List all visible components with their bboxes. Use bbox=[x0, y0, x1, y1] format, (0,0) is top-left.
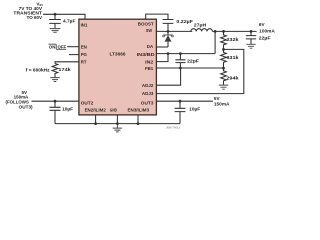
wire IN3/BD line bbox=[156, 53, 215, 55]
svg-text:0.22µF: 0.22µF bbox=[176, 19, 193, 24]
svg-text:294k: 294k bbox=[226, 76, 239, 81]
wire SW line bbox=[156, 30, 192, 32]
svg-text:GND: GND bbox=[110, 107, 118, 113]
resistor R4 174k bbox=[26, 64, 71, 78]
svg-text:FB1: FB1 bbox=[145, 66, 154, 72]
svg-text:232k: 232k bbox=[226, 37, 239, 42]
svg-text:931k: 931k bbox=[226, 55, 239, 60]
svg-text:OFF: OFF bbox=[58, 45, 67, 50]
svg-text:5V: 5V bbox=[214, 96, 221, 101]
svg-text:OUT3: OUT3 bbox=[141, 101, 154, 107]
switch ON/OFF annotation bbox=[49, 44, 67, 49]
wire ADJ3 bbox=[156, 49, 243, 93]
wire VIN to IN1 bbox=[43, 14, 85, 19]
ground R4 bbox=[50, 78, 59, 82]
node junction C4 top bbox=[179, 52, 182, 55]
node junction R1/R2 tap bbox=[222, 48, 225, 51]
svg-text:SW: SW bbox=[146, 28, 153, 34]
svg-text:EN2/ILIM2: EN2/ILIM2 bbox=[85, 107, 106, 113]
node junction GND/rail bbox=[116, 122, 119, 125]
svg-text:150mA: 150mA bbox=[214, 101, 230, 106]
node junction C5 bbox=[179, 100, 182, 103]
capacitor C4 22pF bbox=[175, 54, 199, 68]
capacitor C6 10uF bbox=[50, 101, 74, 123]
wire VOUT1 line bbox=[212, 30, 256, 32]
svg-text:27µH: 27µH bbox=[194, 22, 207, 27]
svg-text:OUT2: OUT2 bbox=[81, 101, 94, 107]
svg-text:BOOST: BOOST bbox=[138, 22, 154, 28]
wire EN3 stub bbox=[137, 115, 139, 124]
wire BD riser bbox=[214, 31, 216, 53]
svg-text:174k: 174k bbox=[58, 67, 71, 72]
capacitor C5 10uF bbox=[175, 101, 201, 123]
node junction EN2/rail bbox=[94, 122, 97, 125]
svg-text:OUT3): OUT3) bbox=[19, 105, 33, 110]
resistor R3 294k bbox=[221, 68, 239, 85]
svg-text:100mA: 100mA bbox=[259, 28, 275, 33]
svg-text:DA: DA bbox=[147, 44, 154, 50]
node VOUT1 label bbox=[259, 22, 276, 33]
wire GND stub bbox=[116, 115, 118, 124]
diode D1 schottky bbox=[163, 31, 174, 47]
node VOUT2 label bbox=[6, 90, 34, 109]
svg-text:22µF: 22µF bbox=[259, 35, 271, 40]
ground C1 bbox=[50, 29, 61, 33]
svg-text:IN1: IN1 bbox=[81, 23, 88, 29]
svg-text:f = 600kHz: f = 600kHz bbox=[26, 68, 50, 73]
op-amp U1 LT3666 IC block bbox=[79, 19, 156, 115]
ground divider bbox=[219, 85, 228, 89]
wire RT bbox=[55, 62, 79, 64]
svg-text:10µF: 10µF bbox=[62, 106, 73, 111]
node junction R2/R3 tap bbox=[222, 67, 225, 70]
capacitor C3 22uF output bbox=[246, 31, 271, 44]
node junction COUT bbox=[250, 30, 253, 33]
svg-text:6V: 6V bbox=[259, 22, 266, 27]
node junction divider top bbox=[222, 30, 225, 33]
node junction EN3/rail bbox=[137, 122, 140, 125]
node VOUT3 label bbox=[214, 96, 230, 106]
svg-text:ADJ3: ADJ3 bbox=[142, 91, 154, 97]
ground main bbox=[113, 124, 122, 132]
wire EN stub bbox=[67, 46, 79, 48]
wire bottom rail bbox=[55, 123, 180, 125]
inductor L1 27uH bbox=[191, 22, 213, 31]
wire OUT2 line bbox=[32, 100, 79, 102]
svg-text:IN2: IN2 bbox=[145, 59, 153, 65]
capacitor C1 4.7uF bbox=[49, 14, 75, 28]
wire FB1 line bbox=[156, 67, 223, 69]
capacitor C2 0.22uF bbox=[163, 19, 193, 32]
svg-text:LT3666: LT3666 bbox=[109, 51, 125, 57]
svg-text:RT: RT bbox=[81, 60, 87, 66]
wire DA stub bbox=[156, 46, 168, 48]
svg-text:ADJ2: ADJ2 bbox=[142, 83, 154, 89]
node junction VIN/C1 bbox=[54, 13, 57, 16]
wire ADJ2 bbox=[156, 68, 180, 85]
node junction C4 bottom / ADJ2 bbox=[179, 67, 182, 70]
svg-text:3666 TA01a: 3666 TA01a bbox=[166, 126, 180, 130]
node junction C6 bbox=[54, 100, 57, 103]
svg-text:EN3/ILIM3: EN3/ILIM3 bbox=[128, 107, 150, 113]
svg-text:PG: PG bbox=[81, 52, 87, 58]
svg-text:(FOLLOWS: (FOLLOWS bbox=[6, 99, 29, 104]
node junction SW/D1/C2 bbox=[167, 30, 170, 33]
node VIN input label bbox=[13, 1, 43, 19]
resistor R1 232k bbox=[221, 31, 239, 49]
svg-text:EN: EN bbox=[81, 44, 88, 50]
svg-text:TO 60V: TO 60V bbox=[27, 15, 43, 20]
svg-text:IN3/BD: IN3/BD bbox=[137, 52, 156, 58]
wire IN2 stub bbox=[156, 54, 168, 62]
node junction IN2 riser bbox=[167, 52, 170, 55]
wire BOOST to C2 bbox=[146, 14, 168, 19]
svg-text:ON: ON bbox=[49, 45, 56, 50]
svg-text:10µF: 10µF bbox=[189, 106, 200, 111]
wire EN2 stub bbox=[95, 115, 97, 124]
svg-text:4.7µF: 4.7µF bbox=[63, 19, 76, 24]
node junction BD riser bbox=[214, 30, 217, 33]
ground C3 bbox=[246, 44, 255, 48]
svg-text:22pF: 22pF bbox=[187, 58, 199, 63]
wire PG stub bbox=[69, 54, 79, 56]
resistor R2 931k bbox=[221, 49, 239, 68]
wire OUT3 line bbox=[156, 100, 213, 102]
